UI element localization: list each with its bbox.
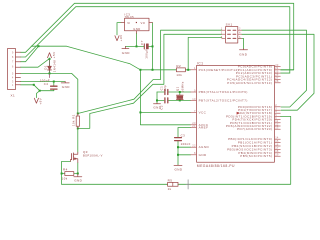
svg-text:PB7(XTAL2/TOSC2/PCINT7): PB7(XTAL2/TOSC2/PCINT7) bbox=[199, 98, 248, 102]
regulator IC3 body bbox=[125, 18, 150, 30]
svg-text:10k: 10k bbox=[176, 73, 182, 77]
svg-text:17: 17 bbox=[275, 146, 279, 150]
svg-text:PD7(AIN1/PCINT23): PD7(AIN1/PCINT23) bbox=[237, 127, 272, 131]
junction dot +9V arrow branch bbox=[39, 90, 41, 92]
svg-text:100nF: 100nF bbox=[181, 142, 191, 146]
svg-text:AGND: AGND bbox=[199, 145, 210, 149]
capacitor C7 left plate bbox=[143, 44, 145, 49]
wire SV1 right pin4 to PD1 elbow bbox=[242, 34, 314, 110]
svg-text:100nF: 100nF bbox=[40, 78, 50, 82]
junction dot GND pin8 tap bbox=[177, 154, 179, 156]
svg-text:GND: GND bbox=[74, 179, 82, 183]
svg-text:16: 16 bbox=[275, 142, 279, 146]
wire +9V supply arrow branch bbox=[36, 91, 39, 98]
resistor R4 (horizontal) bbox=[65, 172, 74, 176]
wire AREF to C3 top bbox=[178, 128, 191, 138]
IC1 left pin numbers bbox=[192, 66, 196, 155]
wire XTAL2 C2 right to IC pin10 bbox=[169, 99, 191, 101]
svg-text:13: 13 bbox=[275, 126, 279, 130]
junction dot connector pin8 +9V bbox=[33, 84, 35, 86]
svg-text:GND: GND bbox=[239, 52, 247, 56]
junction dot R1 bottom bbox=[77, 127, 79, 129]
junction dot R1 top bbox=[77, 113, 79, 115]
wire SV1 left pin3 to IC pin1 junction bbox=[188, 37, 222, 69]
wire crystal Q1 bottom lead bbox=[179, 99, 181, 102]
svg-text:19: 19 bbox=[275, 153, 279, 157]
wire SV1 right pin2 to PD0 elbow bbox=[242, 30, 307, 107]
wire XTAL2 net: GND rail to C2 left plate bbox=[157, 99, 164, 101]
wire IC PC1 to right loop bbox=[280, 69, 293, 71]
svg-text:Q3: Q3 bbox=[83, 150, 88, 154]
svg-text:GND: GND bbox=[199, 153, 207, 157]
wire bottom PWM loop: gate node to R5 bbox=[62, 183, 168, 185]
wire net RESET-loop1: connector X1 pin1 to IC PC1 via top bbox=[21, 3, 294, 70]
svg-text:GND: GND bbox=[175, 167, 183, 171]
ground symbol under crystal rail bbox=[154, 102, 161, 104]
supply +9V arrow below connector bbox=[34, 98, 38, 103]
svg-text:9: 9 bbox=[12, 50, 14, 54]
capacitor C1 plates (XTAL1 load cap) bbox=[165, 90, 168, 95]
diode D1 body line (net) bbox=[49, 58, 51, 73]
wire +5V distribution: junction to R2 and stub of IC pin1 bbox=[140, 69, 176, 71]
svg-text:14: 14 bbox=[275, 136, 279, 140]
svg-text:VI: VI bbox=[127, 21, 130, 25]
MOSFET Q3 source lead with arrow bbox=[74, 159, 78, 163]
ground symbol under C3 rail bbox=[174, 164, 182, 166]
svg-text:GND: GND bbox=[62, 85, 70, 89]
svg-text:10k: 10k bbox=[72, 120, 76, 126]
svg-text:BSP100AL-V: BSP100AL-V bbox=[83, 154, 103, 158]
diode D1 triangle and bar bbox=[48, 66, 52, 70]
junction dot VCC tap bbox=[139, 111, 141, 113]
svg-text:2: 2 bbox=[275, 103, 277, 107]
regulator IC3 pin stubs bbox=[121, 23, 153, 34]
svg-text:8: 8 bbox=[194, 151, 196, 155]
part origin cross near R5 bbox=[186, 180, 190, 189]
svg-text:C3: C3 bbox=[181, 134, 185, 138]
regulator center dot bbox=[136, 22, 137, 23]
svg-text:PB6(XTAL1/TOSC1/PCINT6): PB6(XTAL1/TOSC1/PCINT6) bbox=[199, 90, 248, 94]
wire crystal GND rail bbox=[156, 92, 158, 103]
IC1 right pin stubs PD0-PD7 bbox=[274, 107, 280, 129]
svg-text:+9V: +9V bbox=[38, 98, 42, 105]
junction dot D1 top under +5V arrow bbox=[49, 58, 51, 60]
svg-text:18: 18 bbox=[275, 149, 279, 153]
wire C7 right plate to +5V rail bbox=[148, 45, 152, 47]
IC1 right pin names bbox=[226, 65, 273, 159]
svg-text:AREF: AREF bbox=[199, 126, 209, 130]
svg-text:22: 22 bbox=[192, 144, 196, 148]
wire R1 bottom to MOSFET drain bbox=[77, 128, 79, 152]
junction dot R4 left / gate node bbox=[61, 173, 63, 175]
wire +5V vertical to VCC pin bbox=[140, 70, 190, 125]
svg-text:R4: R4 bbox=[63, 167, 68, 171]
svg-text:1: 1 bbox=[12, 83, 14, 87]
header SV1 body bbox=[226, 27, 238, 44]
IC1 body (MEGA48/88/168) bbox=[197, 65, 275, 162]
wire bottom PWM loop: R5 to IC PD3 bbox=[178, 116, 291, 184]
svg-text:8: 8 bbox=[12, 55, 14, 59]
svg-text:1k: 1k bbox=[168, 187, 172, 191]
wire C4 top lead to GND line bbox=[53, 82, 55, 86]
connector X1 body bbox=[8, 49, 16, 90]
svg-text:PB5(SCK/PCINT5): PB5(SCK/PCINT5) bbox=[240, 154, 272, 158]
MOSFET Q3 drain lead bbox=[74, 152, 78, 154]
junction dot +5V rail joins R2 line bbox=[152, 69, 154, 71]
junction dot crystal top on XTAL1 bbox=[179, 91, 181, 93]
junction dot IC pin1 / SV1 RESET bbox=[187, 69, 189, 71]
svg-text:+9V: +9V bbox=[119, 34, 123, 41]
junction dot AGND tap bbox=[177, 146, 179, 148]
resistor R2 (horizontal) bbox=[176, 68, 185, 72]
junction dot C7 right at +5V rail bbox=[152, 45, 154, 47]
ground symbol under GND line (near C4) bbox=[61, 82, 69, 83]
svg-text:5: 5 bbox=[12, 71, 14, 75]
wire SV1 left pin2 to R1 bottom (SCK diagonal) bbox=[78, 34, 222, 128]
wire net +5V from connector pin3 diagonal bbox=[21, 46, 39, 62]
junction dot R4 right / source GND bbox=[77, 173, 79, 175]
wire GND pin8 bbox=[178, 154, 191, 156]
svg-text:R2: R2 bbox=[176, 64, 181, 68]
svg-text:2: 2 bbox=[239, 27, 241, 31]
svg-text:Q1: Q1 bbox=[175, 86, 179, 91]
svg-text:GND: GND bbox=[122, 51, 130, 55]
svg-text:78L05: 78L05 bbox=[125, 15, 135, 19]
header SV1 pin stubs bbox=[222, 30, 242, 38]
wire net +5V horizontal and shallow diagonal to junction bbox=[31, 46, 140, 70]
MOSFET Q3 gate bar bbox=[71, 154, 73, 160]
wire connector pin4 +5V to D1 top bbox=[21, 59, 50, 68]
svg-text:GND: GND bbox=[133, 27, 140, 31]
wire C7 line: GND symbol to C7 left plate bbox=[125, 45, 144, 47]
svg-text:PC6(/RESET/PCINT14): PC6(/RESET/PCINT14) bbox=[199, 68, 239, 72]
junction dot +5V diag/pin3 bbox=[38, 45, 40, 47]
supply +9V arrow near regulator bbox=[115, 36, 119, 41]
svg-text:1: 1 bbox=[194, 66, 196, 70]
resistor R1 leads bbox=[77, 114, 79, 129]
connector X1 pin stubs bbox=[16, 52, 21, 85]
wire net GND: connector pin7 to GND symbol bbox=[21, 81, 66, 83]
capacitor C4 plates (vertical cap, horizontal plates) bbox=[51, 86, 57, 89]
capacitor C3 plates (AREF cap) bbox=[175, 138, 182, 141]
wire MOSFET source down to GND node bbox=[77, 163, 79, 175]
svg-text:10k: 10k bbox=[62, 176, 68, 180]
wire +9V to regulator VI bbox=[117, 23, 121, 35]
svg-text:6: 6 bbox=[12, 64, 14, 68]
svg-text:R1: R1 bbox=[72, 114, 76, 119]
wire R4 left lead from gate node bbox=[62, 173, 65, 175]
wire IC PC2 to right loop bbox=[280, 72, 290, 74]
svg-text:C7: C7 bbox=[140, 40, 144, 45]
supply +5V arrow above D1 bbox=[48, 53, 52, 58]
wire VCC pin7 of IC bbox=[140, 111, 190, 113]
junction dot D1 bottom bbox=[49, 72, 51, 74]
wire SV1 left pin1 to R1 top junction (MISO diagonal) bbox=[78, 30, 222, 113]
svg-text:R5: R5 bbox=[168, 178, 173, 182]
svg-text:10: 10 bbox=[192, 97, 196, 101]
wire R2 right to IC pin1 junction bbox=[185, 69, 190, 71]
pin direction arrow marker at PD2 bbox=[237, 112, 240, 115]
wire net +9V: connector pin8 to C4 bottom bbox=[21, 85, 54, 91]
junction dot +5V diagonal joins R2 line bbox=[139, 69, 141, 71]
svg-text:100µF: 100µF bbox=[144, 49, 148, 59]
svg-text:15: 15 bbox=[275, 139, 279, 143]
wire C4 bottom lead bbox=[53, 89, 55, 90]
svg-text:X1: X1 bbox=[11, 94, 16, 98]
ground symbol under regulator bbox=[122, 46, 129, 48]
svg-text:22p: 22p bbox=[163, 85, 167, 91]
wire regulator VO to +5V rail down bbox=[152, 23, 154, 70]
capacitor C7 right plate (thick polarized) bbox=[146, 44, 148, 49]
wire net loop2: connector X1 pin2 to IC PC2 via top bbox=[21, 7, 290, 73]
svg-text:5: 5 bbox=[221, 35, 223, 39]
ground symbol at R4/source bbox=[74, 174, 82, 177]
svg-text:6: 6 bbox=[239, 35, 241, 39]
resistor R5 (horizontal) bbox=[168, 182, 178, 186]
svg-text:7: 7 bbox=[194, 109, 196, 113]
svg-text:28: 28 bbox=[275, 79, 279, 83]
junction dot C4 top on GND line bbox=[53, 81, 55, 83]
ground symbol under SV1 bbox=[240, 48, 248, 51]
svg-text:MEGA48/88/168-PU: MEGA48/88/168-PU bbox=[197, 164, 235, 168]
crystal Q1 body bbox=[177, 96, 183, 98]
svg-text:4: 4 bbox=[239, 31, 241, 35]
capacitor C2 plates (XTAL2 load cap) bbox=[165, 98, 168, 103]
svg-text:PC5(ADC5/SCL/PCINT13): PC5(ADC5/SCL/PCINT13) bbox=[227, 81, 272, 85]
svg-text:C4: C4 bbox=[44, 82, 48, 86]
svg-text:VCC: VCC bbox=[199, 110, 207, 114]
IC1 right pin stubs PC0-PC5 bbox=[274, 67, 280, 83]
svg-text:C2: C2 bbox=[160, 105, 164, 109]
svg-text:3: 3 bbox=[221, 31, 223, 35]
wire regulator GND pin down to C7 line bbox=[136, 33, 138, 46]
junction dot crystal bottom on XTAL2 bbox=[179, 99, 181, 101]
MOSFET Q3 channel dashes bbox=[73, 153, 75, 160]
svg-text:1N4148: 1N4148 bbox=[52, 60, 56, 73]
svg-text:4: 4 bbox=[12, 76, 14, 80]
svg-text:IC1: IC1 bbox=[197, 62, 204, 66]
svg-text:SV1: SV1 bbox=[226, 23, 233, 27]
wire AGND pin22 bbox=[178, 146, 191, 148]
svg-text:7: 7 bbox=[12, 60, 14, 64]
IC1 right pin stubs PB0-PB5 bbox=[274, 139, 280, 156]
svg-text:+5V: +5V bbox=[52, 51, 56, 58]
IC1 left pin stubs bbox=[191, 70, 197, 155]
wire XTAL1 cap C1 right to IC pin9 bbox=[169, 91, 191, 93]
svg-text:D1: D1 bbox=[44, 65, 48, 70]
wire XTAL1 net: GND rail to IC pin9 bbox=[157, 91, 164, 93]
svg-text:VO: VO bbox=[141, 21, 146, 25]
wire R4 right to GND/source node bbox=[74, 173, 78, 175]
wire net D1 signal: connector pin5 to R1 top via D1 junction bbox=[21, 73, 78, 113]
wire C3 bottom to GND with AGND and GND taps bbox=[177, 141, 179, 165]
svg-text:9: 9 bbox=[194, 88, 196, 92]
wire SV1 right pin6 to GND symbol bbox=[238, 38, 244, 48]
crystal Q1 plates bbox=[177, 95, 184, 99]
wire crystal Q1 top lead bbox=[179, 92, 181, 95]
svg-text:21: 21 bbox=[192, 124, 196, 128]
junction dot crystal GND rail at XTAL2 bbox=[156, 99, 158, 101]
svg-text:C1: C1 bbox=[160, 86, 164, 90]
header SV1 pads bbox=[228, 30, 236, 38]
resistor R1 (vertical) bbox=[76, 116, 79, 126]
wire MOSFET gate from R4 node bbox=[62, 161, 71, 184]
junction dot regulator GND at C7 line bbox=[136, 45, 138, 47]
svg-text:16MHz: 16MHz bbox=[181, 81, 185, 92]
svg-text:1: 1 bbox=[221, 27, 223, 31]
MOSFET Q3 gate lead bbox=[71, 159, 72, 161]
